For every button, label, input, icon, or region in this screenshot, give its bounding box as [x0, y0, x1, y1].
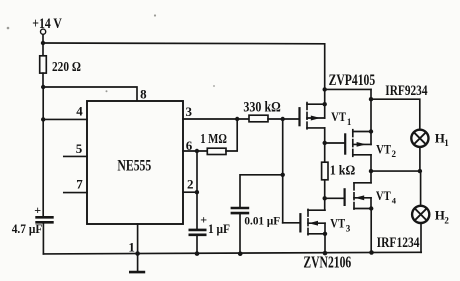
wire VT2 gate lead: [325, 142, 345, 144]
junction node VT3 source / ground rail: [323, 251, 328, 256]
svg-text:+14 V: +14 V: [32, 16, 62, 32]
svg-text:VT: VT: [376, 189, 391, 203]
svg-text:4: 4: [392, 196, 397, 206]
transistor Q2 VT2 IRF9234: [345, 130, 371, 157]
svg-text:1: 1: [444, 138, 449, 148]
svg-text:3: 3: [346, 223, 351, 233]
wire VT2 drain to node A: [370, 155, 372, 183]
svg-text:4: 4: [76, 104, 83, 119]
transistor Q3 VT3 ZVN2106: [300, 209, 325, 234]
svg-text:4.7 μF: 4.7 μF: [12, 221, 43, 236]
lamp H1: [411, 130, 428, 147]
wire left vertical down to C1: [42, 87, 44, 217]
wire pin 7 stub: [64, 192, 87, 194]
svg-text:IRF1234: IRF1234: [377, 235, 420, 251]
junction node C3 / ground rail: [238, 251, 243, 256]
svg-text:H: H: [435, 208, 445, 223]
junction node pin 4: [41, 117, 45, 121]
junction node A VT2 drain / VT4 drain: [369, 169, 373, 173]
transistor Q1 VT1 ZVP4105: [300, 103, 325, 129]
svg-text:3: 3: [186, 104, 193, 119]
IC U1 NE555 timer: [87, 101, 183, 224]
wire VT3 source to bottom rail: [324, 234, 326, 254]
wire VT4 gate lead: [325, 197, 344, 199]
transistor Q4 VT4 IRF1234: [345, 183, 371, 209]
resistor R4 1 kohm: [322, 162, 328, 180]
junction node pin 2: [195, 190, 199, 194]
wire pin 4: [43, 118, 87, 120]
wire VT4 body to source: [370, 198, 372, 209]
svg-text:IRF9234: IRF9234: [385, 83, 428, 99]
svg-text:NE555: NE555: [117, 155, 151, 174]
resistor R3 330 kohm: [249, 115, 268, 122]
wire C1 to bottom rail: [42, 222, 44, 254]
junction node +14V / VT2 branch: [323, 87, 327, 91]
svg-text:VT: VT: [376, 142, 391, 156]
wire VT1 drain to VT2 gate node: [324, 128, 326, 162]
wire VT1 source branch to VT2: [325, 88, 371, 90]
junction node VT4 source: [369, 206, 373, 210]
capacitor C2 1uF plates: [190, 230, 205, 235]
wire C3 to bottom rail: [239, 213, 241, 254]
svg-text:5: 5: [76, 141, 83, 156]
junction node C2 / ground rail: [195, 251, 200, 256]
svg-text:7: 7: [76, 177, 83, 192]
wire C3 branch: [240, 175, 283, 208]
wire top +14V rail: [43, 42, 325, 45]
wire gate node vertical: [282, 119, 284, 223]
wire R2 to pin3 net: [226, 119, 237, 151]
svg-text:0.01 μF: 0.01 μF: [244, 214, 280, 228]
wire VT3 body to source: [324, 223, 326, 234]
wire C2 to bottom rail: [196, 235, 198, 254]
wire pin 5 stub: [64, 155, 87, 157]
wire pin 2: [183, 191, 197, 193]
svg-text:VT: VT: [330, 217, 345, 231]
svg-text:1 MΩ: 1 MΩ: [200, 132, 227, 147]
svg-text:6: 6: [186, 138, 193, 153]
svg-text:8: 8: [140, 87, 147, 102]
junction node R2 / pin 3 net: [235, 117, 239, 121]
svg-text:2: 2: [187, 176, 194, 191]
capacitor C1 4.7uF plates: [37, 217, 53, 222]
capacitor C3 0.01uF plates: [232, 208, 248, 213]
wire H2 bottom to rail: [420, 223, 422, 252]
junction node VT1 drain / VT2 gate: [323, 141, 327, 145]
ground: [137, 254, 139, 273]
lamp H2: [412, 206, 429, 223]
junction node R1 / pin8 rail: [41, 85, 45, 89]
svg-text:1: 1: [347, 117, 352, 127]
junction node H1 bottom / H2 top: [418, 169, 422, 173]
junction node C3 branch: [281, 173, 285, 177]
wire node A to H2 top: [420, 171, 422, 206]
wire pins 2-6 vertical: [196, 151, 198, 230]
junction node VT2 source: [369, 129, 373, 133]
junction node pin 6: [195, 149, 199, 153]
wire VT4 source to bottom rail: [370, 209, 372, 253]
wire R3 to gate node: [268, 118, 299, 120]
wire pin 6: [183, 150, 207, 152]
wire bottom ground rail: [43, 252, 421, 254]
junction node VT3 source: [323, 232, 327, 236]
wire pin8 feed rail: [43, 87, 137, 101]
svg-text:1 kΩ: 1 kΩ: [330, 164, 356, 179]
junction node VT3 drain / VT4 gate: [323, 196, 327, 200]
svg-text:2: 2: [444, 215, 449, 225]
wire top rail down to VT1: [324, 44, 326, 118]
wire resistor to pin8 rail: [42, 73, 44, 87]
wire VT2 source vertical: [370, 89, 372, 144]
svg-text:1 μF: 1 μF: [208, 221, 230, 236]
power terminal +14 V: [41, 29, 46, 34]
junction node +14V rail / R1: [41, 41, 45, 45]
resistor R1 220 ohm: [40, 56, 47, 73]
junction node pin 1 / ground rail: [135, 251, 140, 256]
svg-text:2: 2: [392, 149, 397, 159]
svg-text:330 kΩ: 330 kΩ: [243, 99, 280, 115]
wire pin 3 output: [183, 118, 249, 120]
junction node VT1 gate net: [281, 117, 285, 121]
svg-text:1: 1: [128, 239, 135, 254]
wire node A to H1 bottom: [371, 147, 420, 171]
wire to VT3 gate: [283, 222, 300, 224]
junction node VT1 source: [323, 102, 327, 106]
svg-text:+: +: [200, 213, 207, 227]
wire R4 to VT4 gate node: [324, 180, 326, 210]
svg-text:VT: VT: [331, 110, 346, 124]
svg-text:ZVN2106: ZVN2106: [303, 252, 351, 271]
junction node H1 top feed: [369, 97, 373, 101]
svg-text:+: +: [34, 203, 41, 217]
wire H1 top feed: [371, 99, 420, 130]
wire terminal to top rail: [42, 35, 44, 56]
resistor R2 1 Mohm: [207, 148, 226, 154]
svg-text:220 Ω: 220 Ω: [52, 60, 81, 75]
junction node VT4 source / ground rail: [369, 250, 374, 255]
wire pin 1 to ground rail: [137, 224, 139, 254]
svg-text:ZVP4105: ZVP4105: [329, 72, 376, 89]
